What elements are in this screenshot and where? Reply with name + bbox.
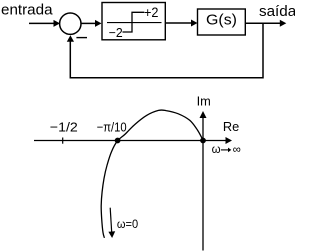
svg-text:G(s): G(s) [206,13,237,29]
svg-text:−π/10: −π/10 [97,119,127,134]
axis Im vertical [200,111,207,251]
minus sign [76,37,87,39]
svg-text:Re: Re [223,119,239,134]
svg-text:−1/2: −1/2 [50,119,78,134]
svg-text:Im: Im [197,94,211,109]
wire feedback [70,23,263,77]
svg-text:−2: −2 [109,25,123,40]
tick -1/2 [62,138,64,144]
svg-text:ω=0: ω=0 [117,217,138,231]
relay characteristic [123,12,145,32]
node origin dot [200,138,206,144]
omega=0 direction arrow [108,208,115,238]
svg-text:∞: ∞ [233,144,241,156]
wire output arrow [246,20,287,27]
wire junction to relay [81,20,101,27]
relay block [102,3,165,40]
axis Re horizontal [34,137,232,144]
wire relay to G(s) [166,20,198,27]
svg-text:+2: +2 [144,5,159,20]
label omega to infinity [212,144,241,156]
wire input arrow [29,20,60,27]
svg-text:ω: ω [212,144,221,156]
summing junction [60,13,81,34]
node -pi/10 dot [115,138,121,144]
svg-text:entrada: entrada [1,2,53,19]
feedback arrowhead [67,35,74,41]
relay axis [107,22,162,24]
svg-text:saída: saída [259,3,295,20]
nyquist curve [101,110,203,238]
block G(s) [198,9,246,35]
